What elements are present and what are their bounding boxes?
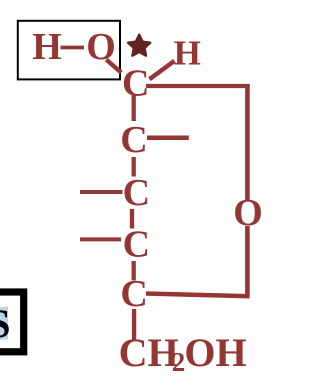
svg-text:H: H	[174, 34, 201, 73]
bond C5 to ring bottom	[146, 294, 250, 297]
svg-text:C: C	[123, 224, 150, 266]
bond C1-C2	[132, 95, 136, 121]
svg-text:S: S	[0, 301, 10, 346]
ring right vertical lower segment	[245, 226, 250, 297]
bond H to C1 (diagonal)	[150, 61, 175, 79]
bond O to C1 (diagonal)	[106, 60, 121, 73]
bond C3-C4	[130, 209, 134, 229]
svg-text:H: H	[32, 26, 62, 68]
bond C3 left dash	[80, 190, 123, 194]
bond C1 to ring top	[146, 84, 250, 88]
svg-text:OH: OH	[184, 330, 246, 375]
bond C2 right	[147, 136, 189, 141]
highlight behind S	[0, 307, 8, 340]
bottom-left label box (clipped)	[0, 292, 24, 352]
svg-text:2: 2	[172, 347, 186, 377]
box around H-O	[18, 21, 120, 80]
svg-text:C: C	[120, 119, 147, 161]
ring right vertical upper segment	[245, 84, 250, 200]
svg-text:CH: CH	[119, 330, 179, 375]
bond C5 to CH2OH	[132, 309, 136, 340]
bond H-O dash	[61, 46, 85, 50]
bond C4 left dash	[80, 237, 121, 241]
star marker	[128, 35, 150, 56]
svg-text:C: C	[123, 172, 150, 214]
bond C4-C5	[132, 261, 136, 280]
bond C2-C3	[132, 157, 136, 177]
svg-text:C: C	[120, 273, 147, 315]
